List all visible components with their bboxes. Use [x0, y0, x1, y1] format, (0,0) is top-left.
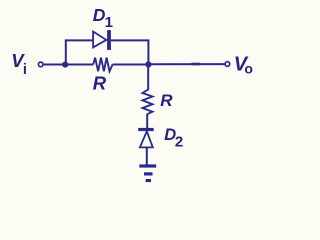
wire node B to output terminal	[148, 63, 224, 65]
svg-text:1: 1	[105, 14, 113, 31]
wire top branch left horizontal to D1 anode	[65, 39, 94, 41]
label Vi	[11, 50, 27, 78]
label Vo	[234, 53, 253, 76]
output terminal Vo	[225, 62, 230, 67]
label D1	[93, 5, 113, 31]
label D2	[164, 126, 183, 150]
ground	[139, 164, 156, 182]
svg-text:o: o	[244, 61, 253, 77]
diode D1	[93, 30, 111, 50]
svg-text:R: R	[160, 91, 173, 110]
wire D2 anode to ground	[146, 147, 148, 165]
wire node B down to resistor R2	[147, 65, 149, 91]
wire D1 cathode to top-right corner down to node B	[111, 40, 148, 64]
node A junction dot	[62, 62, 68, 68]
wire Vi terminal to node A	[44, 64, 66, 66]
svg-text:R: R	[93, 73, 107, 94]
wire resistor R2 to diode D2	[146, 114, 148, 129]
diode D2	[138, 128, 154, 147]
node B junction dot	[145, 61, 151, 67]
wire node A to resistor R1	[65, 64, 93, 66]
input terminal Vi	[38, 62, 43, 67]
wire node A up to top branch	[65, 40, 67, 64]
resistor R1 horizontal	[93, 58, 112, 72]
wire thickened segment	[192, 63, 201, 66]
svg-text:2: 2	[175, 134, 183, 151]
wire resistor R1 to node B	[113, 64, 149, 66]
resistor R2 vertical	[143, 90, 153, 115]
svg-text:i: i	[23, 62, 27, 78]
